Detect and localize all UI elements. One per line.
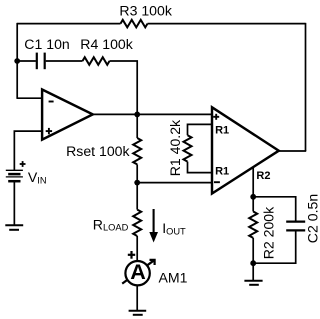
wire node D to ground (252, 263, 254, 281)
wire U1 non-inverting input to battery (14, 131, 42, 170)
svg-text:R1 40.2k: R1 40.2k (167, 119, 183, 176)
svg-text:AM1: AM1 (159, 269, 188, 285)
junction dot node A (134, 112, 140, 118)
svg-text:C2 0.5n: C2 0.5n (304, 194, 320, 243)
op-amp U1 (42, 90, 93, 140)
IOUT current arrow (153, 209, 155, 233)
wire battery negative to ground (13, 181, 15, 225)
wire C2 bottom to node D (253, 231, 296, 263)
resistor R4 100k zigzag (83, 57, 110, 65)
op-amp U1 plus sign (46, 128, 52, 134)
junction dot node D (250, 260, 256, 266)
wire ammeter to ground (136, 286, 138, 311)
svg-text:Rset 100k: Rset 100k (66, 143, 130, 159)
wire U1 inverting input (16, 97, 42, 99)
svg-text:R4 100k: R4 100k (80, 36, 133, 52)
op-amp U2 minus sign (214, 181, 220, 183)
wire R2 top lead (252, 197, 254, 212)
op-amp U1 minus sign (49, 101, 54, 103)
ammeter AM1 arrow shaft (122, 261, 153, 284)
wire node to C1 left plate (17, 60, 36, 62)
wire R4 to middle vertical (110, 61, 138, 114)
wire U1 output to node A (92, 113, 137, 115)
wire resistor R1 to U2 R1 pin bottom (188, 162, 213, 173)
wire RLOAD top lead (136, 183, 138, 210)
resistor RLOAD zigzag (133, 210, 141, 236)
ammeter AM1 circle (125, 261, 149, 285)
ground (R2/C2) (244, 281, 262, 285)
ground (battery) (5, 225, 23, 230)
wire Rset bottom lead (136, 164, 138, 182)
resistor Rset 100k zigzag (133, 138, 141, 164)
wire top horizontal right segment (148, 23, 306, 25)
wire RLOAD bottom lead to ammeter (136, 236, 138, 261)
wire top horizontal left segment (17, 23, 120, 25)
svg-text:R1: R1 (215, 165, 229, 177)
wire Rset top lead (136, 114, 138, 138)
ground (ammeter) (129, 311, 147, 315)
wire C1 right plate to R4 (46, 60, 83, 62)
junction dot node B (134, 180, 140, 186)
capacitor C2 plates (286, 222, 305, 231)
resistor R3 100k zigzag (121, 20, 148, 28)
svg-text:C1 10n: C1 10n (24, 36, 69, 52)
wire node C to C2 top (253, 197, 296, 221)
svg-text:R2: R2 (256, 170, 270, 182)
capacitor C1 plates (37, 53, 45, 70)
svg-text:R2 200k: R2 200k (260, 206, 276, 259)
wire R2 bottom lead (252, 238, 254, 263)
svg-text:R3 100k: R3 100k (119, 2, 172, 18)
resistor R1 40.2k zigzag (184, 135, 192, 161)
svg-text:R1: R1 (215, 125, 229, 137)
resistor R2 200k zigzag (249, 212, 257, 238)
wire left vertical (top wire to U1 inverting input) (16, 23, 18, 98)
wire op-amp U2 output to right vertical (278, 150, 307, 152)
junction dot node C (250, 194, 256, 200)
op-amp U2 plus sign (213, 114, 219, 120)
wire U2 R1 pin top to resistor R1 (188, 124, 213, 135)
wire node A to U2 non-inverting input (137, 113, 212, 115)
svg-text:A: A (130, 260, 146, 284)
battery plus sign (20, 161, 26, 167)
op-amp U2 (212, 107, 279, 193)
wire right vertical (305, 23, 307, 151)
ammeter AM1 arrowhead (150, 260, 155, 265)
wire U2 R2 sense pin (252, 166, 254, 197)
wire node B to U2 inverting input (137, 182, 212, 184)
junction dot node C1/feedback (14, 58, 20, 64)
battery VIN (6, 170, 23, 181)
ammeter plus sign (128, 251, 135, 259)
